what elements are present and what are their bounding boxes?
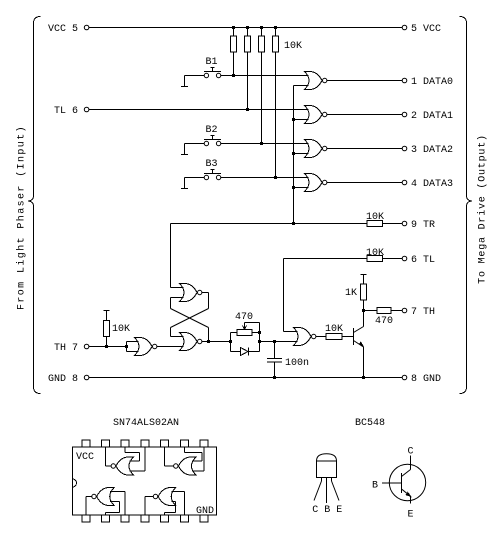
node junction VCC-col1 bbox=[232, 26, 235, 29]
node junction TH-pullup bbox=[105, 345, 108, 348]
wire gate1 out bbox=[327, 80, 402, 82]
node junction B2-col3 bbox=[260, 142, 263, 145]
pushbutton B2 bbox=[181, 125, 221, 155]
capacitor C1 100n bbox=[267, 342, 309, 378]
resistor R4 10K pullup col4 bbox=[273, 28, 279, 178]
IC pin 10 bbox=[161, 440, 169, 447]
transistor Q1 bbox=[354, 311, 364, 378]
wire TR line bbox=[171, 223, 368, 225]
wire B3 to gate4 bbox=[221, 177, 309, 179]
svg-text:GND 8: GND 8 bbox=[48, 374, 78, 385]
node junction VCC-col2 bbox=[246, 26, 249, 29]
NOR gate U1A (DATA0) bbox=[305, 72, 327, 90]
node junction cap top bbox=[273, 340, 276, 343]
IC pin 9 bbox=[180, 440, 188, 447]
wire TL right line bbox=[284, 258, 368, 260]
wire gate4 out bbox=[327, 182, 402, 184]
node junction feed-TR bbox=[292, 222, 295, 225]
terminal 9 TR bbox=[402, 220, 435, 231]
node junction B1-col1 bbox=[232, 74, 235, 77]
node junction feed-gate4 bbox=[292, 186, 295, 189]
wire GND line bbox=[89, 377, 402, 379]
transistor TO-92 package bbox=[312, 454, 342, 516]
svg-text:SN74ALS02AN: SN74ALS02AN bbox=[113, 418, 179, 429]
IC gate top-right bbox=[165, 447, 204, 475]
svg-text:VCC 5: VCC 5 bbox=[48, 24, 78, 35]
svg-text:10K: 10K bbox=[366, 212, 384, 223]
IC pin 5 bbox=[161, 515, 169, 522]
pushbutton B3 bbox=[181, 159, 221, 189]
svg-text:9 TR: 9 TR bbox=[411, 220, 435, 231]
IC pin 6 bbox=[180, 515, 188, 522]
NOR gate U1D (DATA3) bbox=[305, 174, 327, 192]
resistor R10 470 rheostat bbox=[231, 312, 260, 336]
IC pin 8 bbox=[200, 440, 208, 447]
svg-text:6 TL: 6 TL bbox=[411, 255, 435, 266]
resistor R8 470 TH bbox=[364, 308, 403, 328]
terminal 6 TL bbox=[402, 255, 435, 266]
resistor R9 10K TH pullup bbox=[104, 311, 131, 347]
node junction collector bbox=[362, 309, 365, 312]
terminal TH 7 (left) bbox=[54, 343, 89, 354]
svg-text:470: 470 bbox=[235, 312, 253, 323]
svg-text:8 GND: 8 GND bbox=[411, 374, 441, 385]
IC U1 body bbox=[73, 447, 217, 517]
wire VCC rail bbox=[89, 27, 402, 29]
terminal VCC 5 (left) bbox=[48, 24, 89, 35]
svg-text:TH 7: TH 7 bbox=[54, 343, 78, 354]
IC pin 11 bbox=[141, 440, 149, 447]
wire gate3 out bbox=[327, 148, 402, 150]
svg-text:B: B bbox=[372, 481, 378, 492]
label To Mega Drive (Output) bbox=[477, 134, 489, 284]
node junction cap bottom bbox=[273, 376, 276, 379]
terminal 1 DATA0 bbox=[402, 77, 453, 88]
wire TH left bbox=[89, 346, 127, 348]
NOR gate U2A latch upper bbox=[171, 224, 202, 302]
node junction rheostat right bbox=[258, 340, 261, 343]
IC pin 1 bbox=[82, 515, 90, 522]
label SN74ALS02AN bbox=[113, 418, 179, 429]
wire TL feedback vertical bbox=[284, 259, 298, 332]
resistor R3 10K pullup col3 bbox=[259, 28, 265, 144]
IC pin 13 bbox=[102, 440, 110, 447]
terminal 8 GND (right) bbox=[402, 374, 441, 385]
svg-text:To Mega Drive (Output): To Mega Drive (Output) bbox=[477, 134, 489, 284]
node junction feed-gate3 bbox=[292, 152, 295, 155]
node junction emitter-GND bbox=[362, 376, 365, 379]
svg-text:VCC: VCC bbox=[76, 452, 94, 463]
terminal 2 DATA1 bbox=[402, 111, 453, 122]
svg-text:10K: 10K bbox=[112, 324, 130, 335]
node junction rheostat wiper bbox=[258, 331, 261, 334]
svg-text:7 TH: 7 TH bbox=[411, 307, 435, 318]
terminal 7 TH bbox=[402, 307, 435, 318]
NOR gate U1B (DATA1) bbox=[305, 106, 327, 124]
terminal 3 DATA2 bbox=[402, 145, 453, 156]
resistor R7 1K collector pullup bbox=[345, 275, 367, 311]
NOR gate U2D output driver bbox=[294, 328, 316, 346]
IC pin 7 bbox=[200, 515, 208, 522]
NOR gate U2C input inverter bbox=[127, 338, 184, 356]
node junction TH-gate tie bbox=[125, 345, 128, 348]
node junction rheostat left bbox=[229, 340, 232, 343]
IC pin 2 bbox=[102, 515, 110, 522]
label BC548 bbox=[355, 418, 385, 429]
terminal GND 8 (left) bbox=[48, 374, 89, 385]
svg-text:3 DATA2: 3 DATA2 bbox=[411, 145, 453, 156]
svg-text:2 DATA1: 2 DATA1 bbox=[411, 111, 453, 122]
terminal 4 DATA3 bbox=[402, 179, 453, 190]
node junction VCC-col4 bbox=[274, 26, 277, 29]
IC pin 3 bbox=[121, 515, 129, 522]
label From Light Phaser (Input) bbox=[16, 125, 28, 310]
node junction TL-col2 bbox=[246, 108, 249, 111]
resistor R6 10K TL bbox=[366, 248, 402, 262]
svg-text:470: 470 bbox=[375, 316, 393, 327]
right bracket (To Mega Drive) bbox=[460, 17, 473, 394]
wire gate2 out bbox=[327, 114, 402, 116]
resistor R1 10K pullup col1 bbox=[231, 28, 237, 76]
wire TL to gate2 bbox=[89, 109, 309, 111]
NOR gate U2B latch lower bbox=[180, 333, 231, 351]
svg-text:4 DATA3: 4 DATA3 bbox=[411, 179, 453, 190]
resistor R11 10K base bbox=[316, 324, 354, 340]
transistor symbol BC548 bbox=[372, 447, 426, 521]
svg-text:E: E bbox=[408, 510, 414, 521]
svg-text:100n: 100n bbox=[285, 358, 309, 369]
wire B2 to gate3 bbox=[221, 143, 309, 145]
terminal 5 VCC (right) bbox=[402, 24, 441, 35]
wire main line to gate U2D bbox=[260, 341, 298, 343]
IC pin 4 bbox=[141, 515, 149, 522]
wire latch cross-couple upper out to lower in bbox=[171, 293, 209, 337]
svg-text:1 DATA0: 1 DATA0 bbox=[411, 77, 453, 88]
terminal TL 6 (left) bbox=[54, 106, 89, 117]
svg-text:C B E: C B E bbox=[312, 505, 342, 516]
IC gate bottom-right bbox=[145, 488, 184, 516]
svg-text:5 VCC: 5 VCC bbox=[411, 24, 441, 35]
wire feed line (gates second inputs) bbox=[294, 86, 309, 224]
resistor R5 10K TR bbox=[366, 212, 402, 227]
node junction latch out bbox=[207, 340, 210, 343]
IC pin 12 bbox=[121, 440, 129, 447]
NOR gate U1C (DATA2) bbox=[305, 140, 327, 158]
resistor R2 10K pullup col2 bbox=[245, 28, 251, 110]
left bracket (From Light Phaser) bbox=[28, 17, 41, 394]
pushbutton B1 bbox=[181, 57, 221, 87]
IC gate bottom-left bbox=[86, 488, 125, 516]
IC pin 14 bbox=[82, 440, 90, 447]
wire B1 to gate1 bbox=[221, 75, 309, 77]
svg-text:B1: B1 bbox=[206, 57, 218, 68]
svg-text:10K: 10K bbox=[366, 248, 384, 259]
node junction feed-gate2 bbox=[292, 118, 295, 121]
svg-text:1K: 1K bbox=[345, 288, 357, 299]
node junction VCC-col3 bbox=[260, 26, 263, 29]
node junction B3-col4 bbox=[274, 176, 277, 179]
diode D1 bbox=[231, 333, 260, 356]
svg-text:BC548: BC548 bbox=[355, 418, 385, 429]
wire latch cross-couple lower out to upper in bbox=[171, 298, 209, 342]
svg-text:B3: B3 bbox=[206, 159, 218, 170]
svg-text:10K: 10K bbox=[284, 41, 302, 52]
svg-text:B2: B2 bbox=[206, 125, 218, 136]
label 10K pullups bbox=[284, 41, 302, 52]
svg-text:TL 6: TL 6 bbox=[54, 106, 78, 117]
svg-text:From Light Phaser (Input): From Light Phaser (Input) bbox=[16, 125, 28, 310]
IC gate top-left bbox=[106, 447, 145, 475]
